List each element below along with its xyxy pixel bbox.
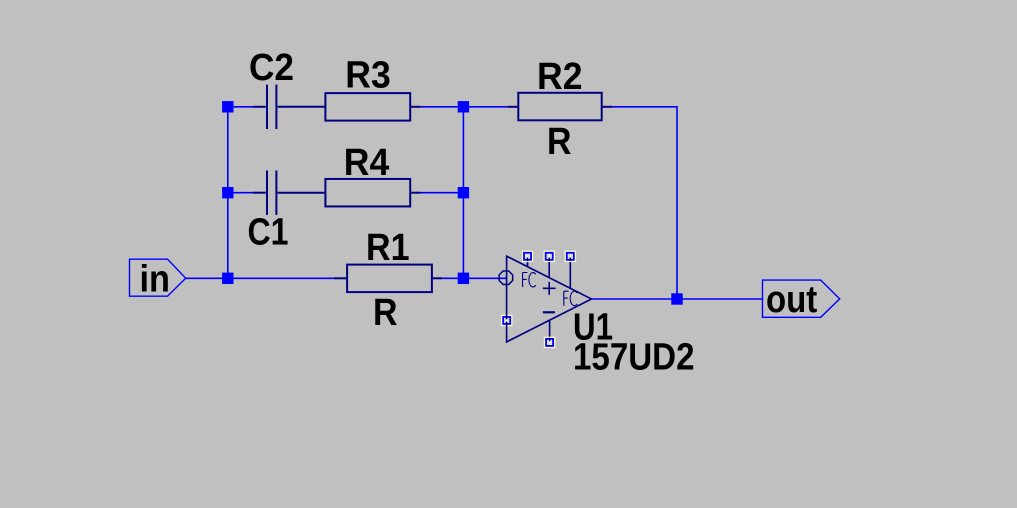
svg-text:R1: R1 [366,227,410,269]
op-amp U1 pin stem top 3 [569,256,571,288]
svg-text:R: R [373,292,398,334]
wire: R1 to right rail [442,277,463,279]
resistor R1 [334,265,442,293]
wire: right rail to op-amp input [463,277,506,279]
wire: row2 left rail to C1 [228,192,253,194]
wire: right vertical rail [462,107,464,278]
capacitor C2 [253,85,324,129]
resistor R4 [325,179,420,207]
node junction right rail row1 [458,101,469,112]
op-amp U1 FC label lower [564,291,577,306]
op-amp U1 pin stem top 1 [527,256,529,267]
wire: row1 left rail to C2 [228,106,253,108]
node junction at in / left rail row3 [222,273,233,284]
op-amp U1 pin stem bottom [549,320,551,342]
wire: row3 left rail to R1 [228,277,334,279]
svg-text:R4: R4 [344,142,390,184]
wire: left vertical rail [227,107,229,278]
node junction right rail row3 [458,273,469,284]
op-amp U1 pin box top 3 [565,251,577,263]
port out symbol [763,280,840,317]
wire: R2 to feedback rail corner [612,107,677,299]
op-amp U1 pin box top 1 [522,251,534,263]
svg-text:157UD2: 157UD2 [573,337,695,379]
node junction left rail row2 [222,187,233,198]
node junction right rail row2 [458,187,469,198]
svg-text:out: out [766,279,818,321]
op-amp U1 FC label upper [523,273,536,288]
capacitor C1 [253,171,324,215]
svg-text:in: in [140,258,171,300]
port in symbol [130,259,186,296]
wire: op-amp output to out port [592,298,763,300]
op-amp U1 minus input mark [543,311,555,313]
wire: in port to left rail [186,277,228,279]
svg-text:C2: C2 [249,47,294,89]
resistor R3 [325,93,420,121]
wire: right rail to R2 [463,106,507,108]
op-amp U1 pin box top 2 [543,251,555,263]
svg-text:R: R [547,121,572,163]
op-amp U1 input inversion circle [499,271,513,285]
resistor R2 [508,93,612,121]
node junction feedback to output [671,293,682,304]
wire: row1 R3 to right rail [421,106,464,108]
node junction left rail row1 [222,101,233,112]
op-amp U1 triangle body [507,256,592,342]
op-amp U1 pin box left [501,315,513,327]
svg-text:C1: C1 [248,211,289,253]
wire: row2 R4 to right rail [421,192,464,194]
svg-text:R3: R3 [345,55,391,97]
svg-text:R2: R2 [537,56,583,98]
op-amp U1 pin stem top 2 [548,256,550,277]
op-amp U1 pin box bottom [544,337,556,349]
op-amp U1 plus input mark [543,282,556,295]
